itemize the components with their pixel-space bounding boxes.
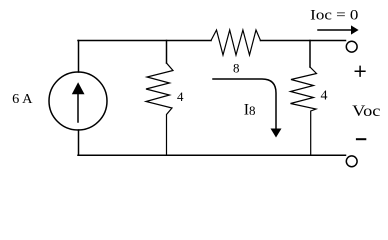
svg-text:4: 4 xyxy=(321,89,328,104)
svg-text:Ioc = 0: Ioc = 0 xyxy=(310,8,358,24)
svg-text:8: 8 xyxy=(249,103,256,118)
svg-text:4: 4 xyxy=(177,89,184,104)
svg-text:Voc: Voc xyxy=(352,103,380,120)
svg-text:8: 8 xyxy=(233,60,240,75)
svg-text:6 A: 6 A xyxy=(12,92,33,107)
